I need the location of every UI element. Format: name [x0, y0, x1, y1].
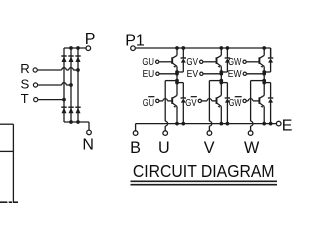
leg 1: upper gate wire: [159, 61, 172, 63]
cropped fragment: bottom edge marks: [0, 201, 7, 203]
leg 1: lower diode top jog: [177, 82, 183, 84]
leg 1: output jog wire: [165, 80, 177, 82]
terminal W circle: [248, 131, 253, 136]
transistor Q4 (lower IGBT): [171, 97, 173, 104]
emitter terminal EW circle: [243, 72, 246, 75]
emitter terminal EV circle: [200, 72, 203, 75]
terminal U circle: [163, 131, 168, 136]
node: top bus junctions: [69, 46, 73, 50]
node T tap junction: [62, 98, 66, 102]
wire T phase tap (joins line 1): [38, 99, 64, 101]
svg-text:EV: EV: [187, 68, 199, 80]
gate terminal GV-bar circle: [198, 99, 201, 102]
diode DF2 (upper freewheel): [225, 57, 230, 59]
leg 2: node main-line top junction: [219, 46, 223, 50]
svg-text:GV: GV: [186, 56, 198, 68]
terminal P circle: [86, 46, 91, 51]
gate terminal GV circle: [200, 60, 203, 63]
leg 3: upper gate wire: [247, 61, 260, 63]
leg 3: lower diode top jog: [264, 82, 270, 84]
transistor Q1 (upper IGBT): [171, 57, 173, 64]
diode DF5 (lower freewheel): [225, 97, 230, 99]
svg-text:B: B: [130, 139, 141, 157]
leg 3: main mid vertical wire: [263, 66, 265, 95]
leg 2: collector wire from P bus: [220, 48, 222, 55]
svg-text:GV: GV: [185, 97, 196, 109]
svg-text:GW: GW: [229, 97, 242, 109]
leg 1: collector wire from P bus: [176, 48, 178, 55]
gate terminal GW circle: [243, 60, 246, 63]
svg-text:E: E: [282, 117, 293, 134]
leg 3: lower gate wire with hop over riser: [247, 100, 249, 102]
wire S phase tap (hops line 1 joins line 2): [38, 84, 62, 86]
transistor Q3 (upper IGBT): [258, 57, 260, 64]
terminal T circle: [34, 98, 38, 102]
cropped fragment: upper horizontal edge: [0, 123, 13, 125]
leg 3: diode bottom jog: [264, 71, 270, 73]
rectifier bottom bus: [64, 121, 89, 123]
leg 3: emitter sense wire: [247, 73, 265, 75]
leg 1: node main-line top junction: [175, 46, 179, 50]
leg 2: output riser with hop over E bus: [208, 81, 210, 122]
terminal B circle: [133, 131, 138, 136]
diode D5 (lower): [68, 106, 73, 108]
wire R phase tap (hops lines 1,2 joins line 3): [38, 69, 62, 71]
emitter terminal EU circle: [156, 72, 159, 75]
diode D3 (upper): [75, 55, 80, 57]
leg 2: lower emitter wire to E bus: [220, 106, 222, 123]
leg 3: output jog wire: [251, 80, 265, 82]
leg 2: emitter sense wire: [203, 73, 221, 75]
diode DF4 (lower freewheel): [181, 97, 186, 99]
leg 1: output riser with hop over E bus: [164, 81, 166, 122]
svg-text:S: S: [21, 77, 30, 92]
diode DF6 (lower freewheel): [268, 97, 273, 99]
gate terminal GW-bar circle: [243, 99, 246, 102]
svg-text:EU: EU: [143, 68, 155, 80]
svg-text:V: V: [204, 139, 215, 157]
node S tap junction: [69, 83, 73, 87]
leg 2: lower diode top jog: [221, 82, 227, 84]
terminal N circle: [87, 130, 92, 135]
caption underline 1: [131, 180, 278, 182]
leg 2: upper gate wire: [203, 61, 216, 63]
leg 1: lower emitter wire to E bus: [176, 106, 178, 123]
svg-text:T: T: [21, 91, 29, 106]
node R tap junction: [76, 68, 80, 72]
rectifier leg 3 vertical wire: [77, 48, 79, 122]
terminal S circle: [33, 83, 37, 87]
leg 3: lower freewheel diode line: [270, 83, 272, 98]
transistor Q2 (upper IGBT): [216, 57, 218, 64]
rectifier leg 2 vertical wire: [70, 48, 72, 122]
leg 2: main mid vertical wire: [220, 66, 222, 95]
terminal R circle: [33, 68, 37, 72]
svg-text:EW: EW: [228, 68, 242, 80]
transistor Q5 (lower IGBT): [216, 97, 218, 104]
leg 3: node main-line top junction: [262, 46, 266, 50]
leg 2: lower freewheel diode line: [226, 83, 228, 98]
leg 2: diode bottom jog: [221, 71, 227, 73]
leg 1: diode bottom jog: [177, 71, 183, 73]
diode D1 (upper): [61, 55, 66, 57]
rectifier top bus: [64, 47, 86, 49]
leg 3: lower emitter wire to E bus: [263, 106, 265, 123]
diode D4 (lower): [61, 106, 66, 108]
caption underline 2: [131, 184, 278, 186]
svg-text:W: W: [244, 139, 260, 157]
inverter P bus: [136, 47, 271, 49]
diode DF3 (upper freewheel): [268, 57, 273, 59]
leg 1: lower freewheel diode line: [182, 83, 184, 98]
svg-text:U: U: [158, 139, 170, 157]
svg-text:N: N: [82, 137, 94, 154]
inverter P bus right end drop: [270, 48, 272, 58]
leg 3: collector wire from P bus: [263, 48, 265, 55]
leg 1: emitter sense wire: [159, 73, 177, 75]
cropped fragment: lower horizontal edge: [0, 150, 13, 152]
terminal P1 circle: [131, 46, 136, 51]
leg 2: lower gate wire with hop over riser: [202, 100, 207, 102]
leg 3: upper freewheel diode line: [270, 48, 272, 58]
rectifier leg 1 vertical wire: [63, 48, 65, 122]
svg-text:GW: GW: [228, 56, 241, 68]
svg-text:CIRCUIT DIAGRAM: CIRCUIT DIAGRAM: [133, 161, 275, 181]
leg 2: upper freewheel diode line: [226, 48, 228, 58]
diode D6 (lower): [75, 106, 80, 108]
wire to N: [88, 122, 90, 130]
node: bottom bus junctions: [69, 120, 73, 124]
terminal V circle: [207, 131, 212, 136]
gate terminal GU-bar circle: [156, 99, 159, 102]
leg 1: lower gate wire with hop over riser: [159, 100, 163, 102]
svg-text:P: P: [85, 31, 96, 48]
cropped package-outline fragment: right edge vertical: [12, 124, 14, 203]
leg 1: upper freewheel diode line: [182, 48, 184, 58]
diode D2 (upper): [68, 55, 73, 57]
diode DF1 (upper freewheel): [181, 57, 186, 59]
svg-text:GU: GU: [143, 97, 154, 109]
svg-text:R: R: [20, 61, 30, 76]
leg 2: output jog wire: [209, 80, 221, 82]
leg 1: main mid vertical wire: [176, 66, 178, 95]
terminal E circle: [276, 121, 281, 126]
transistor Q6 (lower IGBT): [258, 97, 260, 104]
leg 3: output riser with hop over E bus: [250, 81, 252, 122]
wire B stem: [135, 124, 137, 131]
gate terminal GU circle: [156, 60, 159, 63]
inverter E bus: [136, 123, 276, 125]
svg-text:GU: GU: [142, 56, 154, 68]
